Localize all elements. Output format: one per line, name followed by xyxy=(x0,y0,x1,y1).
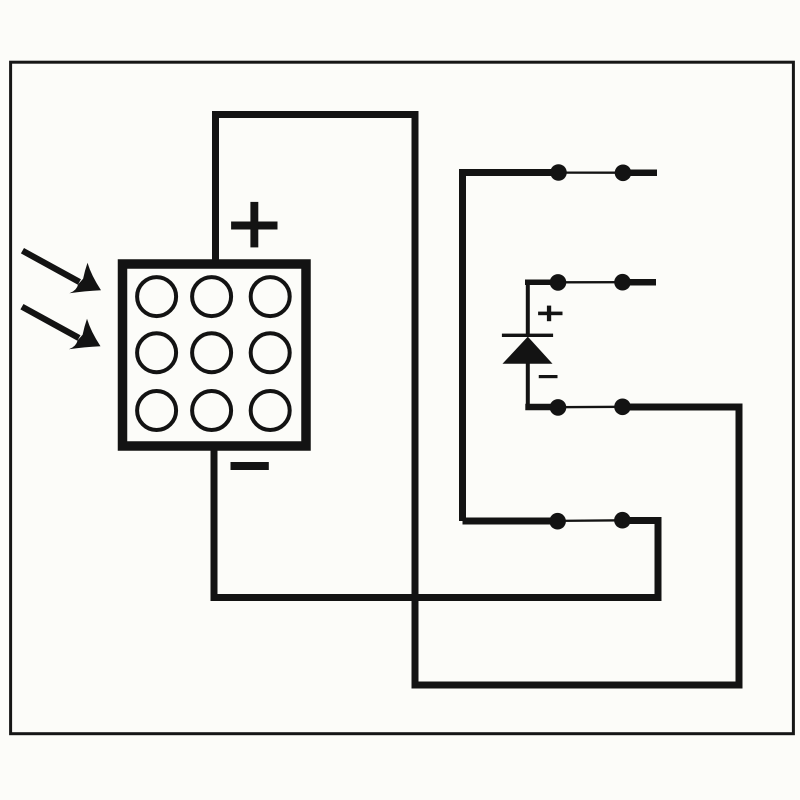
terminal dot J2-2 xyxy=(614,274,631,291)
wire: panel + up and across top xyxy=(216,115,416,265)
wire: J3 left lead xyxy=(525,404,558,411)
label - panel negative terminal xyxy=(231,462,269,470)
solar panel PV1 xyxy=(123,264,307,446)
wire: J1 left lead xyxy=(463,169,559,176)
wire: vertical bus J1 to J4 xyxy=(459,169,466,521)
wire: J4 left lead xyxy=(463,518,558,525)
connector link J1 xyxy=(559,171,624,173)
wire: rise up right edge xyxy=(736,407,743,689)
terminal dot J4-2 xyxy=(614,512,631,529)
wire: J2 left lead from diode xyxy=(525,279,558,285)
wire: bottom return run xyxy=(214,594,662,601)
light arrow 1 xyxy=(21,248,101,293)
terminal dot J2-1 xyxy=(550,274,567,291)
label + diode polarity xyxy=(538,306,562,322)
terminal dot J1-1 xyxy=(550,164,567,181)
wire: J1 right stub xyxy=(623,170,657,177)
wire: bottom run to the right xyxy=(412,682,740,689)
wire: J2 right stub xyxy=(623,279,657,286)
wire: J4 right lead to riser xyxy=(622,517,658,524)
connector link J4 xyxy=(558,519,623,522)
wire: riser down to bottom return xyxy=(655,517,662,598)
wire: long right-side drop xyxy=(412,111,419,685)
connector link J3 xyxy=(558,406,623,409)
terminal dot J4-1 xyxy=(549,513,566,530)
terminal dot J3-1 xyxy=(550,399,567,416)
label - diode polarity xyxy=(539,375,558,378)
diode D1 xyxy=(502,282,553,407)
wire: into J3 right pin xyxy=(623,404,743,411)
terminal dot J1-2 xyxy=(615,165,632,182)
connector link J2 xyxy=(558,281,623,283)
light arrow 2 xyxy=(20,304,100,349)
label + panel positive terminal xyxy=(231,202,277,248)
wire: up into panel negative xyxy=(211,446,218,601)
terminal dot J3-2 xyxy=(614,399,631,416)
